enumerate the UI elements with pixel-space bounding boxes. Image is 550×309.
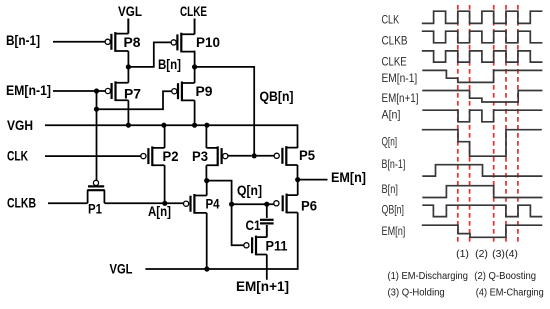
svg-text:P3: P3: [192, 149, 208, 164]
node VGH junction P9: [192, 123, 197, 128]
wire waveform A[n]: [422, 110, 542, 122]
wire P5 source to EM junction: [297, 165, 299, 180]
node EM[n-1] junction: [94, 88, 99, 93]
wire P9 stubs vertical: [194, 67, 196, 125]
wire waveform CLK: [422, 11, 543, 23]
wire waveform CLKB: [422, 31, 543, 43]
transistor P1: [87, 180, 105, 203]
wire B[n] node to P10 gate: [128, 42, 171, 67]
wire P4 drain/source verticals: [206, 181, 208, 269]
svg-text:CLKE: CLKE: [382, 55, 407, 69]
svg-text:EM[n]: EM[n]: [382, 224, 406, 238]
node VGL junction P4: [204, 266, 209, 271]
wire EM[n-1] to P9 gate jog: [97, 91, 172, 109]
wire B[n-1] to P8 gate: [53, 41, 105, 43]
svg-text:P5: P5: [299, 148, 316, 163]
wire VGL bottom rail: [145, 268, 297, 269]
transistor P3: [206, 146, 228, 166]
wire QB[n] net: [195, 67, 255, 156]
svg-text:P4: P4: [206, 197, 220, 212]
svg-text:B[n]: B[n]: [382, 182, 398, 196]
wire waveform B[n]: [422, 186, 542, 198]
wire Q node jog: [207, 181, 232, 205]
wire waveform B[n-1]: [422, 165, 542, 176]
svg-text:QB[n]: QB[n]: [260, 89, 294, 104]
wire waveform QB[n]: [422, 205, 542, 216]
node VGH junction P7: [126, 123, 131, 128]
node QB junction: [252, 153, 257, 158]
svg-text:(4): (4): [505, 248, 518, 260]
svg-text:(4) EM-Charging: (4) EM-Charging: [476, 287, 544, 299]
svg-text:P6: P6: [301, 199, 317, 214]
svg-text:C1: C1: [246, 218, 261, 233]
svg-text:QB[n]: QB[n]: [382, 202, 405, 216]
wire CLK to P2 gate: [45, 155, 141, 157]
svg-text:VGL: VGL: [118, 4, 142, 19]
wire P2 drain/source verticals: [164, 125, 166, 203]
node B[n] junction: [126, 64, 131, 69]
svg-text:Q[n]: Q[n]: [237, 183, 262, 198]
wire waveform EM[n+1]: [422, 91, 542, 103]
svg-text:(3) Q-Holding: (3) Q-Holding: [388, 287, 445, 299]
wire P7 drain to B[n] node: [127, 67, 129, 125]
node C1 junction: [264, 202, 269, 207]
wire Q[n] to P6 gate: [232, 203, 274, 205]
wire EM[n-1] vertical to P1 gate: [96, 91, 98, 180]
wire P3 drain verticals: [205, 125, 207, 180]
svg-text:(2) Q-Boosting: (2) Q-Boosting: [474, 270, 536, 282]
svg-text:EM[n+1]: EM[n+1]: [382, 91, 419, 105]
wire waveform CLKE: [422, 51, 543, 62]
svg-text:P11: P11: [266, 239, 289, 254]
transistor P8: [105, 32, 128, 52]
svg-text:EM[n]: EM[n]: [331, 170, 366, 185]
wire EM[n] output: [298, 179, 328, 181]
svg-text:P7: P7: [124, 87, 141, 102]
svg-text:EM[n-1]: EM[n-1]: [382, 71, 418, 85]
svg-text:B[n-1]: B[n-1]: [382, 157, 406, 171]
svg-text:A[n]: A[n]: [382, 108, 401, 122]
svg-text:B[n-1]: B[n-1]: [6, 33, 40, 48]
svg-text:CLK: CLK: [7, 149, 28, 164]
node P10/P9 junction: [192, 64, 197, 69]
wire EM[n-1] to P7 gate: [53, 90, 106, 92]
svg-text:EM[n+1]: EM[n+1]: [236, 279, 289, 294]
node Q upper junction: [204, 178, 209, 183]
svg-text:(1) EM-Discharging: (1) EM-Discharging: [388, 270, 469, 282]
wire P11 source to EM[n+1]: [266, 225, 268, 280]
wire waveform EM[n]: [422, 225, 543, 237]
wire P3 gate to QB node: [228, 155, 252, 157]
wire CLKE to P10 drain: [194, 19, 196, 35]
node VGH junction P3: [204, 123, 209, 128]
transistor P5: [274, 146, 297, 166]
wire phase marker dashed lines: [457, 5, 459, 245]
svg-text:P1: P1: [88, 202, 102, 217]
node A[n] junction: [162, 201, 167, 206]
svg-text:Q[n]: Q[n]: [382, 135, 398, 149]
node VGH junction P2: [161, 123, 166, 128]
svg-text:(3): (3): [492, 248, 505, 260]
svg-text:VGH: VGH: [7, 118, 33, 133]
svg-text:P10: P10: [196, 35, 220, 50]
svg-text:P8: P8: [124, 35, 142, 50]
svg-text:B[n]: B[n]: [158, 57, 181, 72]
wire VGL-top to P8 drain: [127, 19, 129, 34]
svg-text:(1): (1): [456, 248, 469, 260]
svg-text:A[n]: A[n]: [148, 204, 171, 219]
svg-text:P9: P9: [196, 84, 213, 99]
svg-text:VGL: VGL: [110, 262, 133, 277]
svg-text:CLKE: CLKE: [180, 4, 207, 19]
svg-text:CLKB: CLKB: [382, 34, 408, 48]
wire QB node to P5 gate: [254, 155, 274, 157]
transistor P6: [274, 194, 298, 214]
capacitor C1: [260, 204, 274, 237]
wire waveform EM[n-1]: [422, 70, 542, 82]
transistor P2: [141, 146, 165, 166]
node EM[n] junction: [295, 177, 300, 182]
wire waveform Q[n]: [422, 130, 542, 157]
node EM[n-1] lower junction: [94, 107, 99, 112]
transistor P7: [105, 81, 128, 101]
node Q[n] junction: [229, 202, 234, 207]
svg-text:CLKB: CLKB: [7, 196, 36, 211]
transistor P11: [244, 236, 267, 256]
svg-text:EM[n-1]: EM[n-1]: [6, 83, 51, 98]
svg-text:P2: P2: [163, 149, 179, 164]
transistor P4: [184, 194, 207, 214]
wire Q[n] down to P11 gate: [232, 204, 244, 245]
wire CLKB to P1: [48, 202, 88, 204]
svg-text:(2): (2): [475, 248, 488, 260]
wire P8 drain stub: [127, 19, 129, 67]
transistor P9: [172, 82, 195, 102]
transistor P10: [171, 33, 195, 53]
svg-text:CLK: CLK: [382, 13, 400, 27]
wire P6 drain to EM junction: [297, 180, 299, 270]
wire VGH rail: [45, 125, 298, 148]
wire P10 source to junction: [194, 19, 196, 67]
wire P1 to A[n] node to P4 gate: [104, 202, 183, 204]
